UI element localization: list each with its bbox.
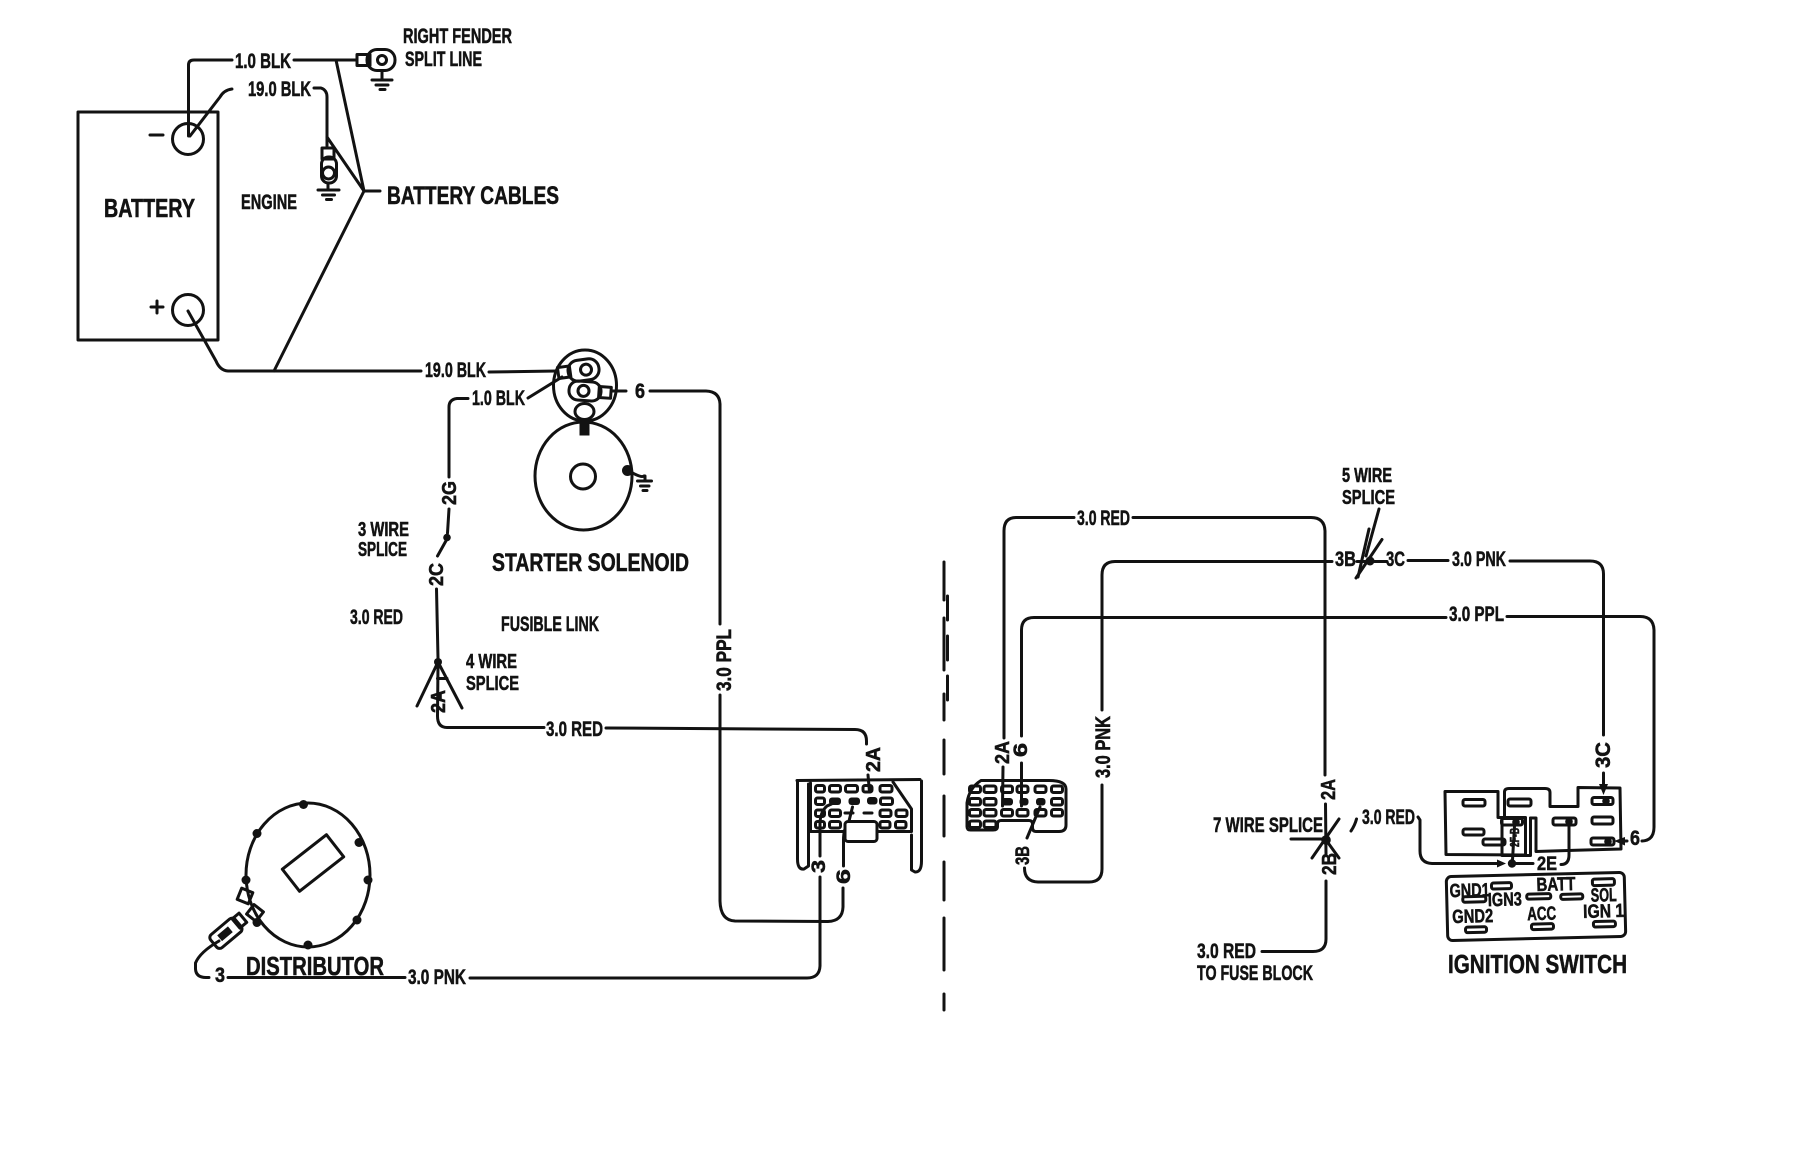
svg-text:5 WIRE: 5 WIRE	[1342, 465, 1392, 487]
distributor rim dot 5	[364, 876, 373, 885]
bulkhead pin row 4	[816, 822, 907, 829]
svg-text:6: 6	[1011, 743, 1032, 757]
battery B1	[78, 112, 218, 340]
svg-text:3B: 3B	[1013, 846, 1034, 865]
4 wire splice prong right	[438, 662, 462, 708]
svg-text:6: 6	[834, 869, 855, 884]
svg-text:2B: 2B	[1319, 853, 1341, 875]
ignition switch connector middle and right block	[1505, 788, 1622, 852]
svg-text:3.0 RED: 3.0 RED	[1197, 940, 1256, 963]
wire 1.0 BLK from battery negative	[189, 60, 357, 136]
svg-text:2A: 2A	[863, 747, 885, 772]
ground starter	[631, 472, 652, 491]
svg-text:2G: 2G	[439, 481, 461, 505]
wire battery cables pointer middle arm	[327, 137, 364, 191]
svg-text:SPLIT LINE: SPLIT LINE	[405, 48, 482, 71]
svg-text:6: 6	[1630, 827, 1640, 850]
ground engine	[318, 183, 339, 200]
distributor rim tab 1	[237, 888, 253, 904]
bulkhead pin row 3	[816, 810, 908, 817]
distributor rim dot 6	[253, 918, 262, 927]
svg-text:3.0 RED: 3.0 RED	[1362, 806, 1415, 829]
svg-text:ENGINE: ENGINE	[241, 191, 297, 214]
ring terminal engine ground	[322, 148, 337, 183]
ignition switch connector left block	[1445, 792, 1526, 856]
distributor plug connector	[208, 912, 249, 950]
ignition connector slot R2	[1592, 817, 1613, 824]
wire 19.0 BLK from battery negative to engine ground	[190, 88, 327, 146]
bulkhead pin row 1	[816, 786, 893, 793]
starter ground terminal dot	[622, 465, 633, 476]
svg-text:2A: 2A	[1318, 779, 1340, 800]
ignition connector slot R3 with pin dot 6	[1591, 838, 1614, 846]
distributor rim dot 7	[353, 916, 362, 925]
svg-text:RIGHT FENDER: RIGHT FENDER	[403, 25, 512, 48]
4 wire splice junction	[434, 658, 442, 666]
bulkhead connector engine side	[797, 780, 922, 873]
ignition connector slot middle right with pin dot	[1553, 818, 1576, 826]
svg-text:3.0 PPL: 3.0 PPL	[713, 629, 736, 691]
arrowhead 6	[1614, 837, 1625, 846]
wire 2C to 4 wire splice	[437, 589, 439, 658]
wire 3.0 PNK distributor to bulkhead	[228, 804, 832, 978]
svg-text:IGN 1: IGN 1	[1583, 901, 1625, 923]
wire 2E hook from middle pin	[1561, 825, 1569, 865]
distributor rim tab 2	[247, 905, 264, 922]
svg-text:3C: 3C	[1592, 742, 1615, 768]
ignition connector slot 2F with pin dot	[1502, 818, 1523, 826]
svg-text:1.0 BLK: 1.0 BLK	[235, 50, 291, 73]
svg-text:SPLICE: SPLICE	[466, 673, 519, 695]
ignition connector slot R1 with pin dot 3C	[1592, 797, 1613, 805]
4 wire splice tick	[438, 677, 448, 680]
wire segment 2G to 3 wire splice	[448, 509, 450, 533]
svg-text:3.0 RED: 3.0 RED	[1077, 507, 1130, 530]
svg-text:GND1: GND1	[1449, 880, 1490, 902]
svg-text:3.0 PPL: 3.0 PPL	[1449, 603, 1504, 626]
wire 2E dot up to 2F pin	[1513, 826, 1515, 860]
wire 3.0 RED interior 2A	[1003, 518, 1326, 807]
wire 3.0 RED to bulkhead 2A	[438, 666, 870, 792]
wire 1.0 BLK solenoid diagonal	[528, 377, 562, 398]
5 wire splice X	[1356, 529, 1387, 578]
arrowhead 3C	[1599, 784, 1608, 795]
7 wire splice X	[1291, 819, 1339, 858]
solenoid lug terminal pin 6	[568, 380, 611, 402]
svg-text:3: 3	[809, 860, 830, 873]
starter motor body	[535, 422, 632, 530]
separator dashed split line	[943, 562, 946, 1010]
svg-text:ACC: ACC	[1527, 904, 1557, 926]
interior connector pin row 4	[970, 821, 997, 828]
svg-text:7 WIRE SPLICE: 7 WIRE SPLICE	[1213, 814, 1323, 837]
svg-text:FUSIBLE LINK: FUSIBLE LINK	[501, 613, 599, 636]
ignition switch face	[1446, 872, 1626, 940]
5 wire splice pointer	[1366, 509, 1379, 556]
wire 1.0 BLK elbow down fusible link 2G	[449, 399, 468, 478]
svg-text:SPLICE: SPLICE	[358, 539, 407, 561]
wire 6 solenoid to 3.0 PPL	[612, 391, 853, 922]
svg-text:BATTERY: BATTERY	[104, 193, 195, 223]
svg-text:3: 3	[215, 964, 225, 987]
interior connector pin row 1	[970, 786, 1063, 793]
wire 3.0 PNK to ignition 3C	[1408, 561, 1604, 786]
starter shaft hole	[571, 464, 596, 489]
svg-text:2C: 2C	[426, 563, 448, 586]
wire battery cables pointer lower arm	[274, 191, 364, 371]
bulkhead connector interior side	[967, 781, 1066, 832]
distributor rim dot 2	[253, 829, 262, 838]
3 wire splice junction	[443, 534, 451, 542]
wire 2A through 7 wire splice	[1262, 804, 1326, 952]
svg-text:GND2: GND2	[1452, 906, 1494, 928]
wire 3.0 PPL interior 6	[1022, 617, 1655, 842]
svg-text:4 WIRE: 4 WIRE	[466, 651, 517, 673]
wire 19.0 BLK battery positive to solenoid	[188, 311, 557, 372]
solenoid lug terminal upper	[557, 357, 601, 384]
wire battery cables pointer upper arm	[336, 60, 364, 191]
interior connector pin row 2 with pins 2A 6 3B	[970, 798, 1063, 806]
starter solenoid body	[554, 350, 617, 421]
svg-text:STARTER SOLENOID: STARTER SOLENOID	[492, 549, 689, 577]
svg-text:SPLICE: SPLICE	[1342, 487, 1395, 509]
distributor rim dot 1	[299, 800, 308, 809]
svg-text:2E: 2E	[1537, 854, 1557, 875]
interior connector pin row 3	[970, 810, 1063, 817]
7 wire splice pointer to 3.0 RED	[1351, 819, 1357, 831]
node 2E dot	[1508, 859, 1516, 867]
wire battery cables pointer tick	[364, 190, 380, 193]
wire 6 into ignition	[1624, 840, 1627, 843]
distributor rim dot 8	[304, 941, 313, 950]
ground right fender	[372, 71, 392, 90]
distributor rim dot 4	[242, 876, 251, 885]
4 wire splice prong left	[417, 662, 438, 706]
bulkhead pin row 2 with pins 3 6 2A	[816, 797, 893, 805]
svg-text:19.0 BLK: 19.0 BLK	[425, 359, 486, 382]
wire 3.0 RED to 2E node	[1418, 817, 1498, 864]
svg-text:3C: 3C	[1386, 548, 1405, 571]
svg-text:3B: 3B	[1335, 548, 1356, 571]
solenoid bolt hole	[575, 404, 594, 420]
svg-text:BATTERY CABLES: BATTERY CABLES	[387, 182, 559, 210]
distributor rim dot 3	[355, 838, 364, 847]
wire 2E dot to label	[1516, 862, 1533, 865]
svg-text:3.0 RED: 3.0 RED	[546, 718, 603, 741]
wire kink below 3 wire splice	[438, 539, 448, 556]
svg-text:TO FUSE BLOCK: TO FUSE BLOCK	[1197, 962, 1313, 985]
svg-text:1.0 BLK: 1.0 BLK	[472, 387, 525, 410]
svg-text:3 WIRE: 3 WIRE	[358, 519, 409, 541]
svg-text:19.0 BLK: 19.0 BLK	[248, 78, 311, 101]
svg-text:3.0 PNK: 3.0 PNK	[1092, 716, 1115, 778]
arrowhead 2E left	[1497, 860, 1506, 868]
ignition connector slot middle tab	[1508, 799, 1531, 806]
svg-text:6: 6	[635, 380, 645, 403]
solenoid to starter joint	[580, 420, 590, 436]
distributor body	[246, 803, 370, 947]
svg-text:3.0 RED: 3.0 RED	[350, 606, 403, 629]
ignition connector slot L1	[1463, 800, 1485, 807]
ignition switch connector 2F sub block	[1502, 818, 1531, 856]
ignition connector slot L2	[1463, 829, 1484, 835]
svg-text:3.0 PNK: 3.0 PNK	[1452, 548, 1506, 571]
svg-text:3.0 PNK: 3.0 PNK	[408, 966, 466, 989]
wire 3B pigtail to 3.0 PNK	[1025, 562, 1333, 883]
svg-text:IGNITION SWITCH: IGNITION SWITCH	[1448, 949, 1627, 979]
ring terminal right fender	[357, 50, 395, 71]
distributor cap rotor window	[282, 835, 343, 892]
wire pigtail distributor pin 3	[196, 941, 220, 978]
ignition connector slot L3	[1483, 839, 1505, 845]
